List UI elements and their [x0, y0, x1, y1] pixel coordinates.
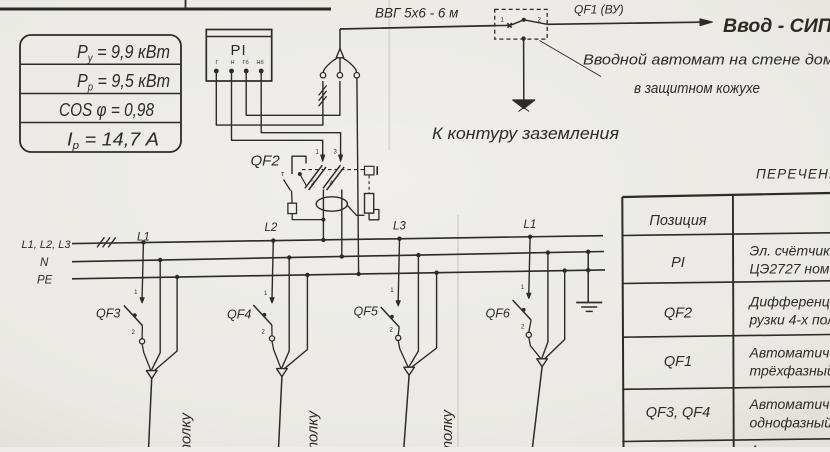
svg-text:L2: L2 [265, 222, 278, 234]
svg-text:N: N [40, 257, 49, 269]
svg-text:Эл. счётчик: Эл. счётчик [750, 243, 830, 259]
svg-text:потолку: потолку [305, 410, 322, 447]
svg-text:трёхфазный: трёхфазный [750, 363, 830, 379]
svg-text:QF3: QF3 [96, 307, 120, 321]
svg-text:Ввод - СИП-4: Ввод - СИП-4 [723, 15, 830, 37]
svg-text:L1: L1 [524, 219, 537, 231]
svg-text:QF4: QF4 [227, 308, 251, 322]
svg-text:PI: PI [671, 255, 685, 271]
svg-text:Нб: Нб [257, 60, 264, 66]
svg-text:L3: L3 [393, 221, 406, 233]
svg-text:QF1 (ВУ): QF1 (ВУ) [574, 3, 624, 17]
svg-text:потолку: потолку [439, 409, 456, 447]
svg-text:ПЕРЕЧЕНЬ ЭЛ: ПЕРЕЧЕНЬ ЭЛ [756, 167, 830, 182]
svg-text:рузки 4-х пол: рузки 4-х пол [749, 312, 830, 328]
svg-text:PI: PI [231, 42, 247, 59]
svg-text:L1, L2, L3: L1, L2, L3 [22, 239, 72, 251]
svg-text:PE: PE [37, 275, 53, 287]
svg-text:Автоматичес: Автоматичес [749, 396, 830, 412]
svg-text:ЦЭ2727 ном: ЦЭ2727 ном [750, 261, 830, 277]
svg-text:QF1: QF1 [664, 354, 692, 370]
svg-text:Дифференциал: Дифференциал [748, 294, 830, 310]
svg-text:Автоматичес: Автоматичес [749, 345, 830, 361]
svg-text:Г: Г [216, 60, 219, 66]
svg-text:QF6: QF6 [486, 307, 510, 321]
svg-text:COS φ = 0,98: COS φ = 0,98 [59, 99, 155, 120]
svg-text:Iр = 14,7 А: Iр = 14,7 А [67, 129, 159, 153]
svg-text:QF2: QF2 [664, 306, 692, 322]
svg-text:Позиция: Позиция [649, 213, 707, 229]
svg-text:К контуру заземления: К контуру заземления [432, 125, 619, 143]
svg-text:Гб: Гб [243, 60, 249, 66]
svg-text:в защитном кожухе: в защитном кожухе [634, 80, 760, 97]
svg-text:однофазный: однофазный [750, 415, 830, 431]
svg-text:потолку: потолку [178, 412, 195, 447]
svg-text:Н: Н [231, 60, 235, 66]
svg-text:QF2: QF2 [251, 153, 281, 170]
svg-text:Автоматичес: Автоматичес [749, 442, 830, 447]
svg-text:QF3, QF4: QF3, QF4 [646, 405, 710, 421]
svg-text:QF5: QF5 [354, 305, 378, 319]
svg-text:ВВГ 5х6 - 6 м: ВВГ 5х6 - 6 м [375, 6, 458, 21]
svg-text:Вводной автомат на стене дома: Вводной автомат на стене дома [583, 52, 830, 69]
